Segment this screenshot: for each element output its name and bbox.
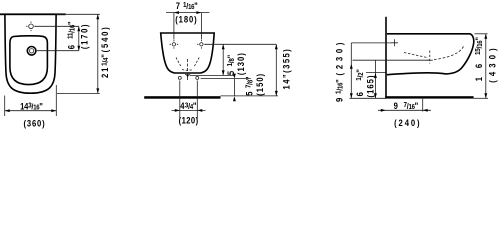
top extension line to 540 dim — [56, 13, 100, 15]
floor bar front view — [144, 96, 220, 99]
dimension 230 line — [350, 43, 352, 98]
dimension 170 arrows — [77, 26, 80, 50]
180 dim right extension — [200, 13, 202, 40]
fixing hole left — [170, 40, 179, 49]
centerline arrow tip — [186, 75, 189, 78]
svg-text:(130): (130) — [235, 52, 246, 75]
leader from drain — [37, 50, 79, 52]
dimension holes-waste line — [222, 44, 224, 75]
leader from water connections — [201, 78, 251, 80]
floor extension line — [221, 95, 279, 97]
leader from tap hole — [35, 25, 79, 27]
svg-text:61/2": 61/2" — [354, 58, 365, 97]
side view body outline — [387, 34, 474, 75]
120 dim right extension — [196, 81, 198, 119]
bottom extension line to 540 dim — [57, 92, 100, 94]
svg-text:(170): (170) — [79, 23, 90, 49]
water connection circle left — [178, 76, 181, 79]
centerline cross tick — [185, 74, 190, 76]
svg-text:(240): (240) — [394, 117, 421, 128]
dimension 360 arrows — [5, 109, 57, 112]
underside extension — [366, 72, 386, 74]
wall line behind plan view — [0, 13, 66, 15]
dimension 540 arrows — [96, 14, 99, 93]
360 dim right extension — [55, 85, 57, 116]
svg-text:91/16"(230): 91/16"(230) — [334, 39, 345, 102]
cavity dashed curve — [434, 47, 464, 60]
water connection circle right — [196, 76, 199, 79]
dimension 240 arrows (outside) — [381, 109, 428, 112]
dimension 360 line — [5, 110, 57, 112]
svg-text:14”(355): 14”(355) — [281, 48, 292, 90]
dimension 355 line — [275, 44, 277, 96]
dimension 180 arrows — [174, 11, 202, 14]
wall line — [385, 17, 387, 99]
dimension 120 line — [172, 109, 206, 111]
svg-text:(120): (120) — [179, 115, 199, 126]
svg-text:(150): (150) — [254, 73, 265, 96]
tap hole — [26, 22, 36, 32]
rim top extension — [475, 33, 488, 35]
dimension 355 arrows — [275, 44, 278, 96]
svg-text:1615/16": 1615/16" — [473, 28, 484, 81]
dimension 165 arrows — [374, 73, 377, 98]
waste dashed vertical — [429, 51, 431, 64]
floor bottom extension left — [350, 97, 386, 99]
floor bar side view — [385, 96, 473, 98]
centerline dashed — [187, 59, 189, 81]
front view bowl outline — [161, 33, 215, 73]
dimension 165 line — [374, 60, 376, 98]
svg-text:211/4"(540): 211/4"(540) — [100, 25, 111, 78]
drain outer circle — [27, 47, 36, 56]
dimension 430 line — [485, 34, 487, 99]
dimension 180 line — [166, 12, 210, 14]
fixing hole right — [197, 40, 206, 49]
dimension 120 arrows (outside) — [175, 109, 203, 112]
dimension 540 line — [97, 14, 99, 93]
plan view inner basin — [10, 36, 48, 85]
dimension 130 arrows (outside) — [233, 74, 236, 102]
leader from waste — [353, 59, 430, 61]
dimension 170 line — [78, 26, 80, 50]
svg-text:(430): (430) — [487, 44, 498, 83]
dimension 230 arrows — [350, 64, 353, 99]
svg-text:97/16": 97/16" — [394, 100, 424, 111]
360 dim left extension — [4, 96, 6, 117]
plan view outer outline — [5, 15, 56, 93]
leader from fixing cross — [351, 42, 391, 44]
dimension 240 line — [378, 109, 431, 111]
120 dim left extension — [179, 81, 181, 119]
svg-text:71/16": 71/16" — [176, 0, 201, 11]
svg-text:(180): (180) — [175, 14, 197, 25]
svg-text:143/16": 143/16" — [20, 101, 43, 112]
240 dim right extension — [422, 99, 424, 112]
leader from fixing holes — [205, 43, 277, 45]
bowl interior dashed drain — [176, 58, 199, 71]
fixing cross — [391, 39, 398, 46]
180 dim left extension — [173, 13, 175, 40]
dimension 130 line — [233, 79, 235, 96]
leader from waste cross — [190, 74, 235, 76]
svg-text:43/4": 43/4" — [180, 101, 197, 112]
svg-text:(165): (165) — [365, 74, 376, 97]
svg-text:57/8": 57/8" — [244, 73, 255, 96]
drain inner circle — [29, 49, 33, 53]
svg-text:611/16": 611/16" — [66, 15, 77, 49]
svg-text:(360): (360) — [23, 118, 45, 129]
dimension 430 arrows — [484, 34, 487, 99]
waste dashed diagonal — [404, 53, 427, 58]
dimension holes-waste arrows — [222, 44, 225, 75]
waste cross tick — [427, 59, 433, 61]
floor thin extension right — [474, 97, 488, 99]
